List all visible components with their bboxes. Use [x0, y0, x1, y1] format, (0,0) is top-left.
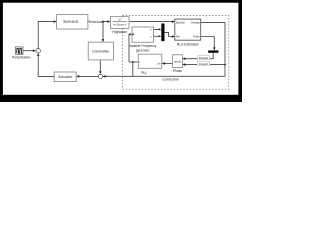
- arrow into PLL ph: [162, 62, 165, 65]
- svg-text:Controller: Controller: [92, 48, 110, 53]
- svg-text:Epsilon: Epsilon: [176, 21, 185, 25]
- sum1 circle: [36, 49, 40, 53]
- junction dots: [102, 21, 104, 23]
- svg-text:PLL: PLL: [141, 71, 147, 75]
- svg-text:RLS Estimator: RLS Estimator: [177, 43, 200, 47]
- wire: mux out to RLS psi: [165, 32, 172, 36]
- wire: return into sum2: [106, 75, 226, 77]
- theta wire labels: [197, 56, 209, 60]
- wire: branch up to VFG input: [128, 34, 130, 62]
- svg-text:Perturbation: Perturbation: [12, 56, 31, 60]
- highpass block: [110, 17, 129, 29]
- wire: theta out down to demux: [201, 37, 215, 48]
- atan2 block: [173, 55, 183, 68]
- dashed subsystem boundary (Correction area): [122, 16, 228, 90]
- arrow into sensor: [54, 20, 57, 23]
- wire: PLL out to branch: [129, 61, 138, 63]
- wire: branch down to return line: [132, 62, 134, 76]
- wire: controller down to sum2: [99, 60, 101, 71]
- PLL block: [138, 54, 162, 68]
- arrow down into demux: [213, 47, 216, 50]
- residual label: [88, 18, 102, 24]
- arrow up into sum1 bottom: [37, 53, 40, 56]
- mux bar: [161, 24, 164, 42]
- arrow into RLS epsilon: [172, 20, 175, 23]
- svg-text:Highpass: Highpass: [112, 30, 127, 34]
- arrowheads: [33, 20, 216, 77]
- arrows into mux: [159, 28, 162, 30]
- svg-text:theta(2): theta(2): [199, 56, 208, 60]
- svg-text:generator: generator: [136, 48, 151, 52]
- svg-text:Omega: Omega: [191, 21, 200, 25]
- controller block: [88, 42, 113, 60]
- wire: omega out right and down: [201, 23, 225, 77]
- svg-text:s²+2ξωs+ω²: s²+2ξωs+ω²: [113, 23, 126, 26]
- svg-text:Phase: Phase: [173, 69, 183, 73]
- demux bar: [208, 50, 218, 52]
- svg-text:s²: s²: [118, 18, 120, 22]
- wire: sum2 out to actuator: [79, 75, 98, 77]
- perturbation source block: [16, 47, 23, 54]
- wire: sum1 up and right into sensor: [38, 22, 53, 49]
- arrow into actuator right side: [76, 75, 79, 78]
- arrow into highpass: [107, 20, 110, 23]
- wire: sensor residual out to highpass: [88, 21, 108, 23]
- wire: VFG outputs to mux: [154, 28, 159, 30]
- actuator block: [54, 72, 76, 82]
- arrow into RLS psi: [172, 35, 175, 38]
- arrow down into controller: [102, 39, 105, 42]
- svg-text:Theta: Theta: [193, 35, 200, 39]
- sensor block: [57, 15, 88, 29]
- svg-text:Psi: Psi: [176, 35, 180, 39]
- sum2 circle: [98, 74, 102, 78]
- svg-text:Residual: Residual: [87, 19, 103, 24]
- wire: highpass out to RLS epsilon: [129, 21, 172, 23]
- wire: actuator out left and up into sum1: [38, 56, 54, 77]
- wire: perturbation to sum1: [23, 50, 33, 52]
- wire: atan2 out to PLL ph input: [165, 62, 173, 64]
- svg-text:Correction: Correction: [162, 78, 179, 82]
- variable frequency generator block: [132, 27, 154, 42]
- arrow down into sum2: [99, 71, 102, 74]
- arrow into sum1 left: [33, 49, 36, 52]
- wire: demux stem to atan2 upper input: [185, 53, 213, 59]
- wire: residual branch down to controller: [102, 22, 104, 40]
- outer black frame: [0, 0, 242, 102]
- svg-text:Sensor: Sensor: [63, 19, 79, 24]
- svg-text:Variable Frequency: Variable Frequency: [129, 44, 157, 48]
- svg-text:ph: ph: [158, 62, 161, 66]
- wire: omega branch to atan2 lower input: [185, 64, 225, 66]
- arrow into sum2 from right: [103, 75, 106, 78]
- arrow into atan2 lower: [182, 63, 185, 66]
- svg-text:theta(1): theta(1): [199, 62, 208, 66]
- RLS estimator block: [175, 19, 201, 40]
- svg-text:atan2: atan2: [174, 59, 181, 63]
- svg-text:Actuator: Actuator: [58, 75, 73, 79]
- arrow into atan2 upper: [182, 57, 185, 60]
- arrow into VFG input: [129, 33, 132, 35]
